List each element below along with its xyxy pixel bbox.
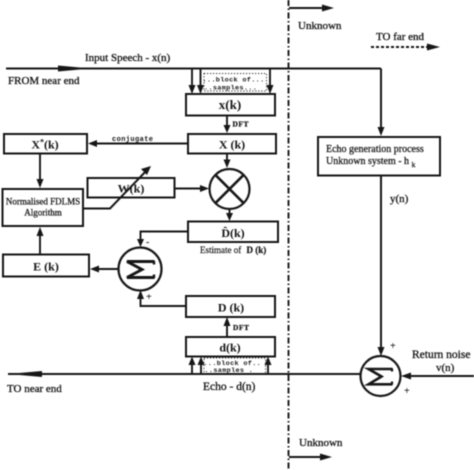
wire W(k) to multiplier [175,185,210,192]
svg-text:+: + [146,292,152,303]
box E(k) [3,255,89,277]
multiplier (circle with X) [210,169,250,209]
svg-text:DFT: DFT [233,120,250,129]
box Echo generation process [318,137,440,176]
svg-text:..samples...: ..samples... [204,84,257,92]
svg-text:+: + [404,386,410,397]
box X*(k) [4,134,87,154]
svg-text:+: + [390,341,396,352]
svg-text:TO far end: TO far end [376,31,425,43]
wire drop arrows into x(k) [189,69,274,95]
svg-text:DFT: DFT [233,323,250,332]
svg-text:TO near end: TO near end [7,383,62,395]
svg-text:-: - [146,237,149,248]
svg-text:x(k): x(k) [219,97,241,112]
box W(k) [88,178,175,198]
wire bottom unknown arrow [289,454,332,461]
box d(k) [186,337,275,357]
wire vertical dash-dot divider [288,0,290,470]
svg-text:Normalised FDLMS: Normalised FDLMS [6,197,80,207]
node Unknown (top) [298,20,342,32]
node Echo - d(n) [203,381,256,393]
svg-text:W(k): W(k) [118,182,145,196]
wire up arrows from echo line into d(k) [189,357,272,375]
svg-text:Echo - d(n): Echo - d(n) [203,381,256,393]
node TO near end [7,383,62,395]
wire X*(k) to FDLMS [37,154,44,189]
node Return noise v(n) [412,349,470,374]
node TO far end [371,31,440,51]
wire sum1 to E(k) [90,266,119,273]
box x(k) [186,94,275,116]
svg-text:E (k): E (k) [33,260,59,274]
svg-text:Input Speech - x(n): Input Speech - x(n) [85,52,171,64]
svg-text:Unknown: Unknown [298,20,342,32]
wire DFT arrow d(k) to D(k) [224,317,250,337]
svg-text:Echo generation process: Echo generation process [326,144,424,155]
wire DFT arrow x(k) to X(k) [224,116,250,134]
wire E(k) to FDLMS [37,227,44,255]
svg-text:v(n): v(n) [436,362,455,374]
wire FDLMS adjust diagonal through W(k) [84,166,151,209]
svg-text:Return noise: Return noise [412,349,470,361]
svg-text:X*(k): X*(k) [31,137,58,152]
node block of samples (bottom dotted box) [204,358,266,375]
node FROM near end [8,75,80,87]
node block of samples (top dotted box) [203,74,267,93]
summer sum1 [119,248,162,291]
wire conjugate arrow X(k) to X*(k) [88,136,188,147]
wire X(k) to multiplier [224,154,231,169]
svg-text:Estimate of D (k): Estimate of D (k) [200,245,266,255]
svg-text:y(n): y(n) [390,193,409,205]
box D^(k) [188,222,278,243]
wire bottom echo line [8,371,360,377]
wire input to echo generation box [378,69,385,137]
node Estimate of D(k) [200,245,266,255]
svg-text:D (k): D (k) [218,301,244,315]
summer sum2 [361,356,401,396]
svg-text:FROM near end: FROM near end [8,75,80,87]
svg-text:conjugate: conjugate [112,136,153,144]
svg-text:...block of...: ...block of... [203,77,265,85]
node Input Speech - x(n) [85,52,171,64]
node Unknown (bottom) [299,437,343,449]
wire multiplier to D^(k) [226,209,233,221]
wire D^(k) to sum1 (minus) [137,232,188,249]
svg-text:d(k): d(k) [219,341,240,355]
wire D(k) to sum1 (plus) [137,290,186,306]
svg-text:Unknown system - h k: Unknown system - h k [326,156,416,169]
svg-text:Algorithm: Algorithm [24,208,62,218]
wire y(n) from echo box to sum2 [378,176,409,357]
wire return noise into sum2 [401,373,474,398]
wire main top line: Input speech [6,66,381,72]
box X(k) [188,134,276,154]
box Normalised FDLMS Algorithm [3,189,84,226]
svg-text:Unknown: Unknown [299,437,343,449]
box D(k) [186,296,275,317]
wire top unknown arrow [289,5,334,12]
svg-text:D̂(k): D̂(k) [221,226,244,240]
svg-text:X (k): X (k) [219,138,245,152]
